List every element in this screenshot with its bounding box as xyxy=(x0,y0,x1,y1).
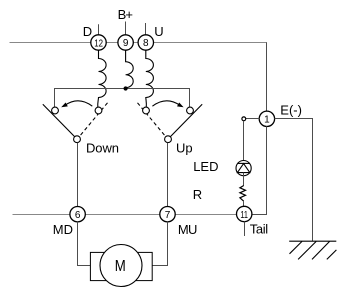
svg-text:B+: B+ xyxy=(118,7,133,22)
svg-text:7: 7 xyxy=(165,210,171,221)
svg-text:Tail: Tail xyxy=(250,222,269,237)
resistor R xyxy=(240,186,246,202)
svg-text:9: 9 xyxy=(123,38,129,49)
LED D1 xyxy=(236,161,251,176)
switch SW1 right contact xyxy=(95,107,102,114)
svg-text:11: 11 xyxy=(240,210,248,221)
pin 8 xyxy=(138,35,153,50)
motor M housing xyxy=(90,252,152,280)
junction dot coil L2 to middle bus xyxy=(124,86,128,90)
wire terminal down to LED xyxy=(243,121,245,164)
wire pin 6 to motor xyxy=(78,222,91,266)
switch SW2 alternate arm (dashed) xyxy=(138,103,166,137)
terminal node (small circle) xyxy=(242,117,246,121)
wire stub above pin 12 xyxy=(98,24,100,35)
svg-text:U: U xyxy=(154,24,163,39)
wire terminal to pin 1 xyxy=(246,118,260,120)
svg-text:12: 12 xyxy=(94,39,103,50)
svg-text:R: R xyxy=(193,187,202,202)
svg-text:Up: Up xyxy=(176,140,193,155)
svg-text:M: M xyxy=(115,258,126,275)
svg-text:LED: LED xyxy=(193,159,218,174)
switch SW1 alternate arm (dashed) xyxy=(79,103,107,137)
wire pin 7 to motor xyxy=(152,222,167,266)
switch SW2 movable arm (solid, Up position) xyxy=(170,104,202,136)
svg-text:6: 6 xyxy=(75,210,81,221)
wire middle bus with drops to outer contacts xyxy=(55,89,190,108)
wire top bus xyxy=(10,42,268,44)
pin 9 xyxy=(118,35,133,50)
switch SW1 movable arm (solid, Down position) xyxy=(43,104,75,136)
svg-text:E(-): E(-) xyxy=(280,102,302,117)
svg-text:MU: MU xyxy=(178,222,198,237)
motor M xyxy=(100,245,142,287)
pin 12 xyxy=(91,35,106,50)
wire pin 1 to ground xyxy=(275,119,313,242)
switch SW2 actuation arrow (right) xyxy=(152,101,180,106)
svg-text:8: 8 xyxy=(143,38,149,49)
wire resistor to pin 11 xyxy=(243,201,245,206)
ground xyxy=(289,241,336,259)
pin 6 xyxy=(70,207,85,222)
wire SW2 common to pin 7 xyxy=(167,143,169,207)
switch SW1 actuation arrow (left) xyxy=(65,101,93,106)
pin 1 xyxy=(259,111,274,126)
wire pin 1 riser from top bus xyxy=(266,43,268,112)
pin 11 xyxy=(237,206,252,221)
switch SW2 common contact xyxy=(165,136,172,143)
svg-text:Down: Down xyxy=(86,140,119,155)
wire SW1 common to pin 6 xyxy=(77,143,79,207)
wire pin 1 down to pin 11 xyxy=(252,126,267,214)
svg-text:1: 1 xyxy=(264,115,270,126)
switch SW1 common contact xyxy=(74,136,81,143)
switch SW2 right contact xyxy=(187,107,194,114)
wire stub below pin 11 xyxy=(244,221,246,236)
wire stub above pin 9 xyxy=(125,22,127,36)
wire LED to resistor xyxy=(243,173,245,186)
svg-text:MD: MD xyxy=(53,222,73,237)
relay coil L2 (from pin 9) xyxy=(126,50,134,87)
switch SW1 left contact xyxy=(52,107,59,114)
wire bottom bus xyxy=(13,214,245,216)
switch SW2 left contact xyxy=(143,107,150,114)
wire stub above pin 8 xyxy=(145,23,147,35)
pin 7 xyxy=(160,207,175,222)
relay coil L1 (from pin 12) xyxy=(98,50,106,107)
svg-text:D: D xyxy=(83,24,92,39)
relay coil L3 (from pin 8) xyxy=(146,50,154,107)
